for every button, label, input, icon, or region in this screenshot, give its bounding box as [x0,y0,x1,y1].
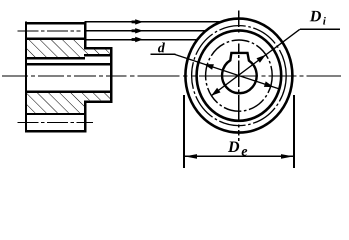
wire: bore top line [26,63,110,66]
wire: bottom edge of side view [25,130,87,133]
arrowhead d upper left [204,64,214,70]
circle pitch (dash-dot) [192,26,287,126]
wire: main axis dash-dot line [2,75,341,77]
wire: root line top band [26,38,85,40]
wire: pitch dash-dot line bottom band [18,122,94,124]
arrowhead d lower right [264,81,274,87]
dimension line Di (diagonal) [211,29,300,96]
circle De (outer) [185,19,292,133]
label Di [310,11,321,22]
wire: De dimension line [184,155,294,157]
wire: keyway floor line in bore [26,57,85,60]
wire: projection line 1 (tip) [85,21,220,23]
arrowhead Di lower left [211,88,220,96]
wire: pitch dash-dot line top band [18,30,81,32]
dimension line d (diagonal) [174,54,279,89]
wire: projection line 2 (pitch) [85,30,205,32]
circle Di (root) [197,30,282,120]
gear side view: hatched rim section bottom [26,93,110,113]
wire: hub bottom edge [84,100,113,103]
bore circle with keyway [222,53,257,93]
label d underline [151,53,176,55]
wire: hub keyway line [84,54,110,57]
wire: top edge of side view [25,22,87,25]
arrowhead De left [185,154,197,159]
wire: projection line 3 (root) [85,39,198,41]
arrowhead Di upper right [257,55,266,63]
label De [228,142,239,153]
label d [158,42,165,52]
wire: left edge of side view [25,21,27,132]
gear side view: hatched rim section top [26,40,110,57]
arrowhead De right [281,154,293,159]
wire: right edge lower part [84,100,86,132]
arrowhead projection line 1 [135,19,143,24]
wire: front view vertical centre line [238,10,240,141]
wire: right edge upper part [84,21,86,49]
wire: bore bottom line [26,91,110,94]
arrowhead projection line 3 [135,37,143,42]
wire: hub right edge [110,47,112,103]
circle inner dash-dot [206,40,273,111]
wire: hub top edge [84,47,113,50]
wire: De extension line right [293,95,295,168]
wire: De extension line left [183,95,185,168]
label Di underline [300,28,340,30]
arrowhead projection line 2 [135,28,143,33]
wire: root line bottom band [26,113,85,115]
